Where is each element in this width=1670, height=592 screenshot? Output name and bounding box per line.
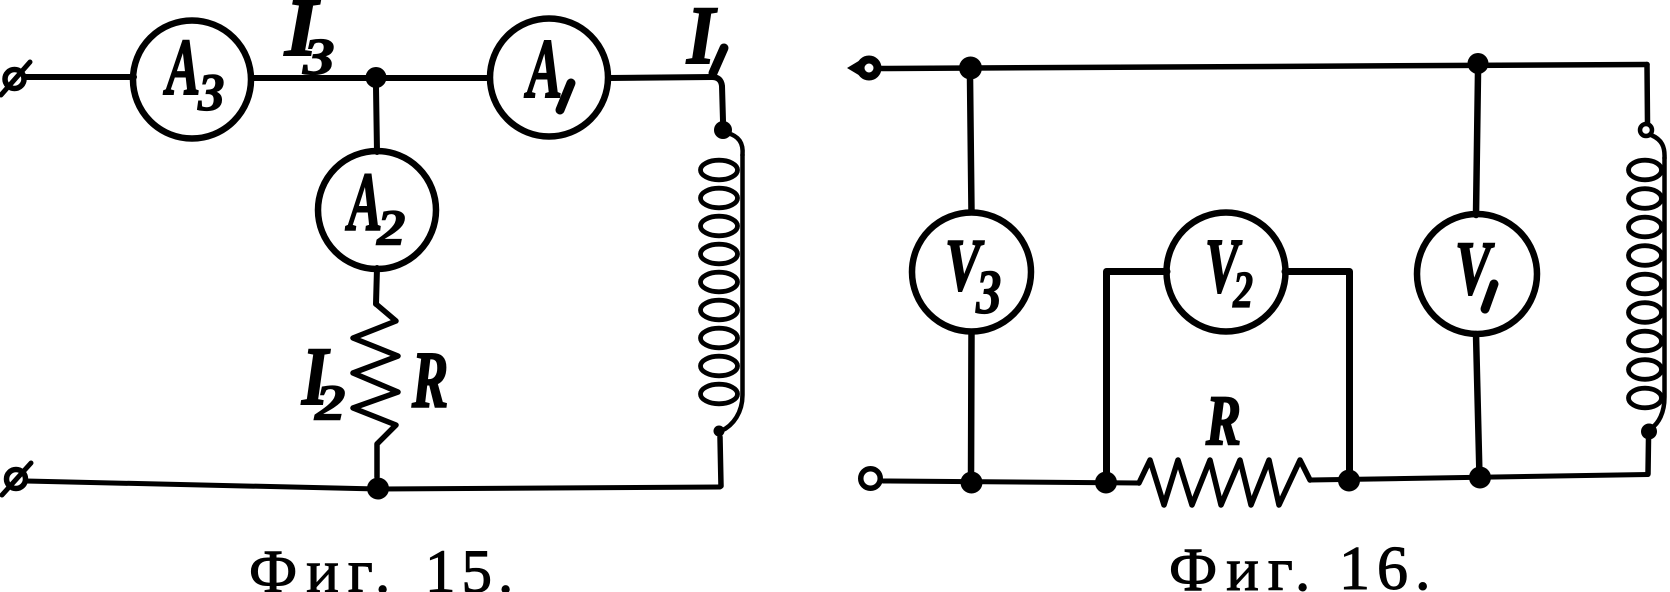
svg-text:R: R bbox=[1205, 380, 1241, 460]
svg-text:A: A bbox=[524, 22, 562, 116]
svg-text:3: 3 bbox=[975, 258, 1001, 327]
svg-text:I: I bbox=[686, 0, 718, 81]
svg-text:A: A bbox=[163, 23, 200, 112]
svg-text:2: 2 bbox=[1232, 261, 1253, 318]
svg-text:15.: 15. bbox=[425, 539, 519, 592]
svg-text:3: 3 bbox=[302, 27, 335, 85]
svg-text:R: R bbox=[411, 336, 448, 425]
svg-text:16.: 16. bbox=[1339, 535, 1438, 592]
svg-text:2: 2 bbox=[376, 200, 406, 257]
svg-text:2: 2 bbox=[314, 376, 346, 432]
svg-text:3: 3 bbox=[197, 64, 225, 122]
svg-text:Фиг.: Фиг. bbox=[1169, 537, 1319, 592]
svg-text:V: V bbox=[1455, 227, 1495, 311]
svg-text:Фиг.: Фиг. bbox=[249, 539, 399, 592]
